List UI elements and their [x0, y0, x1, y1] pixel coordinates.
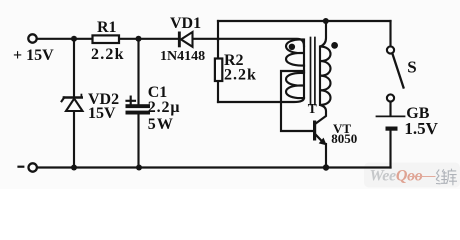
svg-text:2.2k: 2.2k [224, 67, 257, 84]
svg-text:T: T [308, 101, 317, 116]
svg-text:2.2k: 2.2k [91, 46, 125, 63]
svg-text:2.2μ: 2.2μ [148, 99, 181, 116]
svg-text:+ 15V: + 15V [13, 47, 54, 64]
svg-text:S: S [407, 57, 416, 76]
svg-text:1.5V: 1.5V [404, 119, 438, 138]
svg-text:5W: 5W [148, 116, 174, 133]
svg-text:1N4148: 1N4148 [160, 49, 205, 64]
svg-text:VD1: VD1 [170, 15, 201, 32]
svg-text:8050: 8050 [331, 131, 357, 146]
svg-text:R1: R1 [97, 19, 117, 36]
svg-text:15V: 15V [88, 105, 116, 122]
